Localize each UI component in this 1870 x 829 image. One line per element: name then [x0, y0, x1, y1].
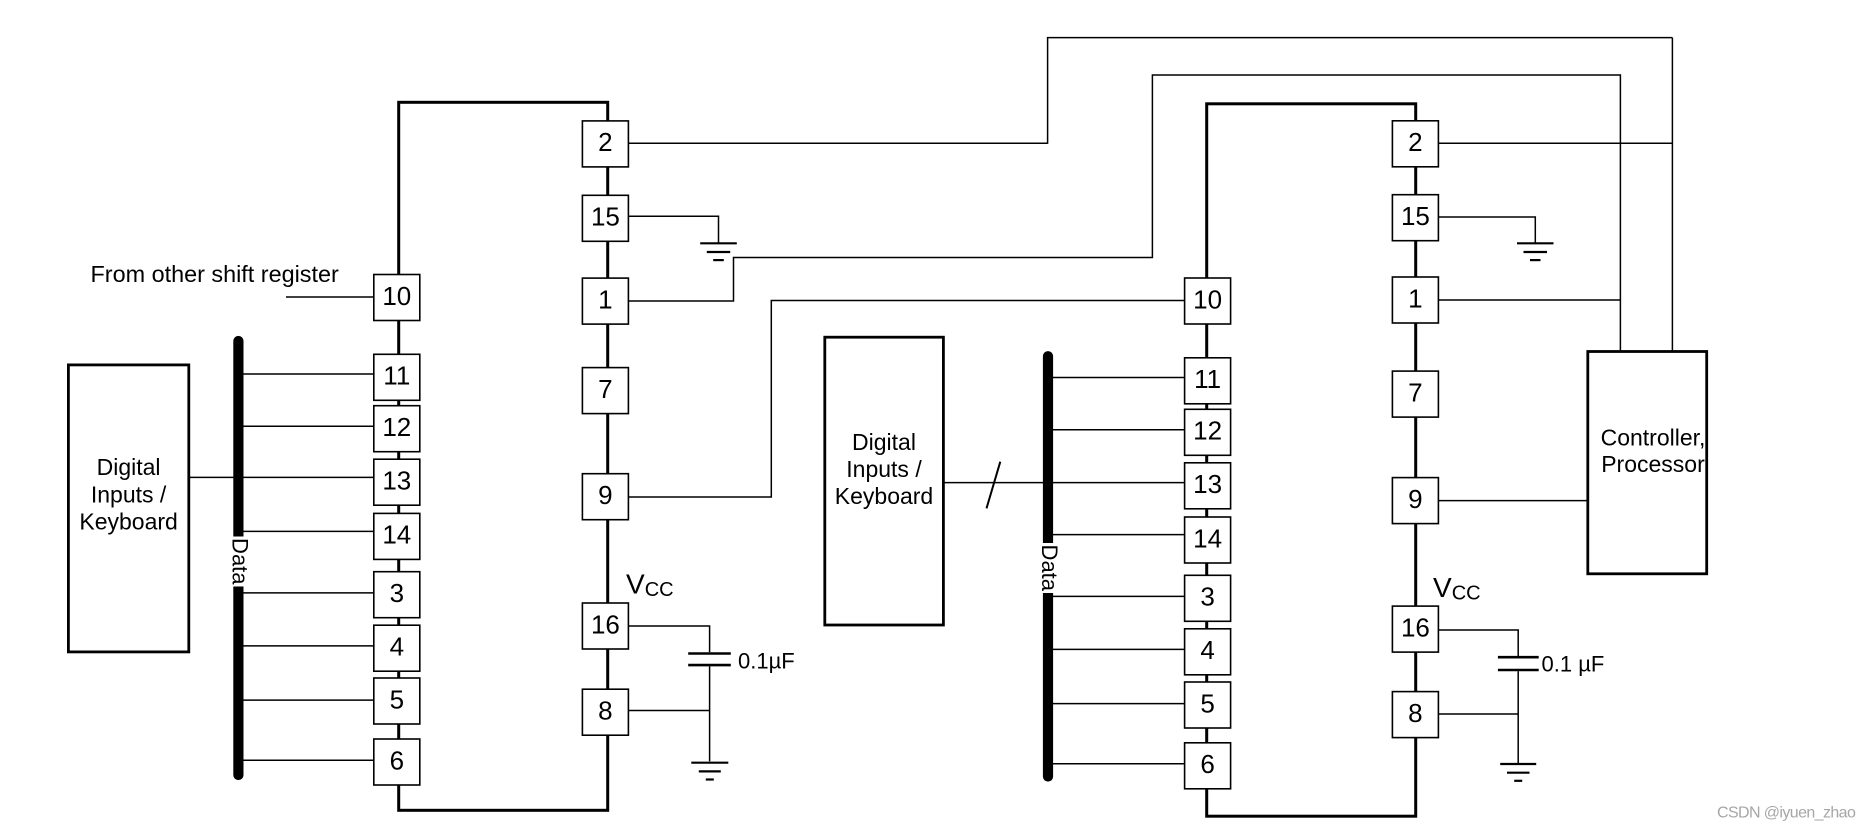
U1 pin 14	[374, 513, 420, 559]
U2 pin 9	[1392, 478, 1438, 524]
U1 pin 13	[374, 459, 420, 505]
svg-text:5: 5	[1200, 688, 1214, 718]
wire U1 pin1 to controller (SH/LD net)	[628, 75, 1620, 352]
svg-text:From other shift register: From other shift register	[91, 261, 339, 287]
wire Data bus 1 tap to U1 pin6	[238, 759, 374, 761]
svg-text:9: 9	[1408, 484, 1422, 514]
wire riser at x=1048 (CLK net)	[1047, 38, 1049, 144]
svg-text:13: 13	[382, 466, 411, 496]
wire Data bus 2 tap to U2 pin12	[1048, 429, 1185, 431]
svg-text:16: 16	[1401, 612, 1430, 642]
wire drop to controller (CLK net)	[1671, 38, 1673, 352]
U2 pin 14	[1185, 517, 1231, 563]
svg-text:Controller,: Controller,	[1601, 425, 1706, 451]
svg-text:Processor: Processor	[1601, 451, 1705, 477]
Digital Inputs / Keyboard box 1	[68, 365, 188, 652]
shift register U1 body outline	[399, 102, 608, 810]
Data bus 1 label	[228, 537, 253, 587]
svg-text:6: 6	[390, 745, 404, 775]
U2 pin 2	[1392, 121, 1438, 167]
U1 pin 2	[582, 121, 628, 167]
U2 pin 1	[1392, 277, 1438, 323]
U1 pin 9	[582, 474, 628, 520]
svg-text:Inputs /: Inputs /	[846, 456, 922, 482]
wire U2 pin2 to CLK drop	[1438, 142, 1673, 144]
U1 pin 10	[374, 275, 420, 321]
svg-text:Keyboard: Keyboard	[79, 509, 177, 535]
svg-text:Digital: Digital	[97, 454, 161, 480]
U1 pin 5	[374, 678, 420, 724]
svg-text:7: 7	[1408, 377, 1422, 407]
wire Data bus 2 tap to U2 pin11	[1048, 377, 1185, 379]
svg-text:12: 12	[1193, 416, 1222, 446]
wire Data bus 2 tap to U2 pin14	[1048, 534, 1185, 536]
svg-text:Keyboard: Keyboard	[835, 483, 933, 509]
wire box1 through Data bus 1 to U1 pin13	[189, 476, 374, 478]
svg-text:3: 3	[1200, 582, 1214, 612]
U2 pin 11	[1185, 358, 1231, 404]
U1 pin 11	[374, 354, 420, 400]
wire Data bus 2 tap to U2 pin4	[1048, 648, 1185, 650]
wire U1 pin16 to Vcc node / C1	[628, 626, 710, 652]
U2 pin 6	[1185, 743, 1231, 789]
wire Data bus 1 tap to U1 pin12	[238, 425, 374, 427]
Controller / Processor box	[1588, 352, 1707, 574]
wire Data bus 1 tap to U1 pin3	[238, 592, 374, 594]
svg-text:5: 5	[390, 684, 404, 714]
Digital Inputs / Keyboard box 2	[825, 337, 944, 625]
svg-text:0.1µF: 0.1µF	[738, 649, 795, 674]
svg-text:6: 6	[1200, 749, 1214, 779]
U1 pin 15	[582, 195, 628, 241]
wire Data bus 2 tap to U2 pin3	[1048, 595, 1185, 597]
U2 pin 15	[1392, 195, 1438, 241]
wire box2 through Data bus 2 to U2 pin13	[943, 482, 1184, 484]
svg-text:3: 3	[390, 578, 404, 608]
U1 pin 7	[582, 368, 628, 414]
wire from other shift register to U1 pin10	[286, 296, 374, 298]
U2 pin 7	[1392, 371, 1438, 417]
svg-text:4: 4	[1200, 635, 1214, 665]
U2 pin 16	[1392, 606, 1438, 652]
wire Data bus 1 tap to U1 pin5	[238, 699, 374, 701]
svg-text:Data: Data	[228, 538, 253, 585]
wire Data bus 2 tap to U2 pin5	[1048, 703, 1185, 705]
svg-text:Inputs /: Inputs /	[91, 481, 167, 507]
U2 pin 13	[1185, 463, 1231, 509]
wire Data bus 1 tap to U1 pin14	[238, 530, 374, 532]
svg-text:Digital: Digital	[852, 429, 916, 455]
U2 pin 12	[1185, 409, 1231, 455]
svg-text:10: 10	[1193, 284, 1222, 314]
shift register U2 body outline	[1207, 104, 1416, 816]
ground at C2	[1500, 764, 1536, 781]
svg-text:2: 2	[598, 127, 612, 157]
svg-text:15: 15	[591, 202, 620, 232]
wire U1 pin2 to riser (CLK net)	[628, 142, 1048, 144]
wire U1 pin9 to U2 pin10 (cascade serial data)	[628, 301, 1185, 498]
U1 pin 3	[374, 572, 420, 618]
capacitor C2 plates 0.1uF	[1498, 657, 1539, 670]
capacitor C1 plates 0.1uF	[688, 654, 731, 666]
wire U2 pin16 to Vcc node / C2	[1438, 630, 1518, 656]
wire U2 pin15 to ground	[1438, 217, 1535, 243]
wire Data bus 1 tap to U1 pin4	[238, 645, 374, 647]
wire Data bus 2 tap to U2 pin6	[1048, 763, 1185, 765]
svg-text:7: 7	[598, 374, 612, 404]
ground at C1	[691, 763, 728, 780]
svg-text:8: 8	[598, 696, 612, 726]
U1 pin 1	[582, 278, 628, 324]
wire U1 pin15 to ground	[628, 216, 719, 242]
U1 pin 4	[374, 625, 420, 671]
wire C1 to ground	[709, 666, 711, 761]
U1 pin 8	[582, 689, 628, 735]
wire U2 pin9 to controller (serial out)	[1438, 500, 1587, 502]
svg-text:1: 1	[598, 284, 612, 314]
svg-text:16: 16	[591, 609, 620, 639]
U2 pin 4	[1185, 629, 1231, 675]
svg-text:12: 12	[382, 412, 411, 442]
wire U2 pin8 to C2 ground leg	[1438, 713, 1518, 715]
svg-text:2: 2	[1408, 127, 1422, 157]
svg-text:11: 11	[383, 361, 410, 391]
svg-text:14: 14	[1193, 523, 1222, 553]
svg-text:11: 11	[1194, 364, 1221, 394]
U1 pin 16	[582, 603, 628, 649]
wire U1 pin8 to C1 ground leg	[628, 710, 710, 712]
bus-width slash on box2 wire	[987, 462, 1001, 509]
wire C2 to ground	[1517, 671, 1519, 763]
svg-text:14: 14	[382, 520, 411, 550]
svg-text:Data: Data	[1037, 545, 1062, 592]
wire top horizontal run (CLK net)	[1047, 37, 1673, 39]
Data bus 2 label	[1037, 543, 1062, 593]
svg-text:13: 13	[1193, 469, 1222, 499]
svg-text:10: 10	[382, 281, 411, 311]
svg-text:0.1 µF: 0.1 µF	[1542, 652, 1605, 677]
U2 pin 3	[1185, 575, 1231, 621]
wire Data bus 1 tap to U1 pin11	[238, 373, 374, 375]
Data bus 2	[1043, 356, 1053, 776]
U1 pin 12	[374, 406, 420, 452]
svg-text:8: 8	[1408, 698, 1422, 728]
svg-text:4: 4	[390, 632, 404, 662]
U1 pin 6	[374, 739, 420, 785]
svg-text:CSDN @iyuen_zhao: CSDN @iyuen_zhao	[1717, 805, 1856, 822]
wire U2 pin1 to SH/LD drop	[1438, 299, 1621, 301]
svg-text:1: 1	[1408, 283, 1422, 313]
U2 pin 5	[1185, 682, 1231, 728]
svg-text:15: 15	[1401, 201, 1430, 231]
ground at U1 pin15	[700, 243, 737, 260]
U2 pin 8	[1392, 692, 1438, 738]
ground at U2 pin15	[1517, 243, 1554, 260]
Data bus 1	[233, 341, 243, 775]
U2 pin 10	[1185, 278, 1231, 324]
svg-text:9: 9	[598, 480, 612, 510]
